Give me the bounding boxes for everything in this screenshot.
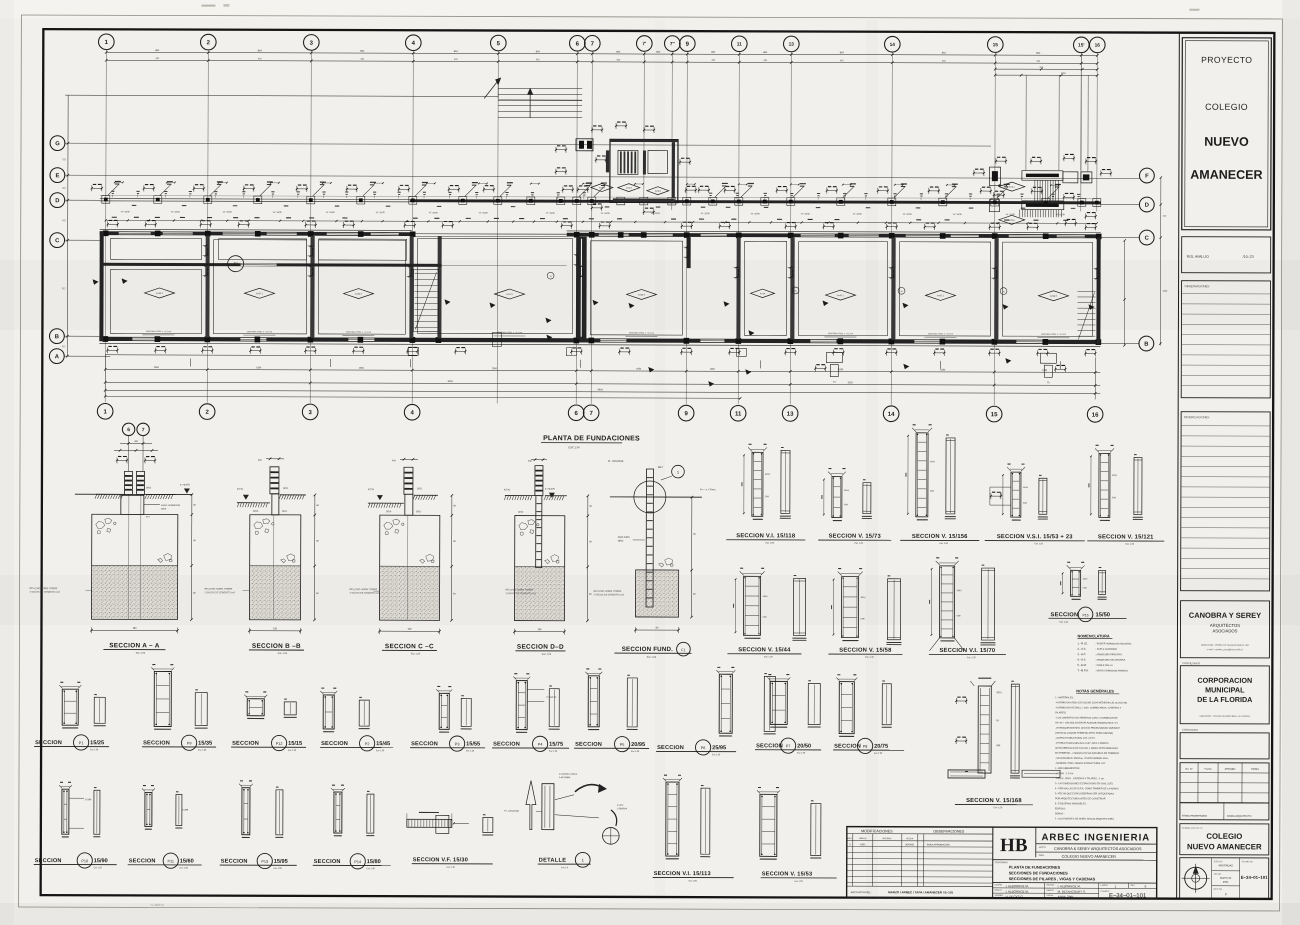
svg-text:15/35: 15/35: [198, 741, 212, 747]
svg-text:Esc 1:20: Esc 1:20: [94, 867, 103, 869]
svg-text:15: 15: [900, 291, 902, 293]
wall stub below axis C near grid 9: [687, 237, 691, 268]
svg-text:SECCION: SECCION: [411, 741, 438, 747]
svg-text:SECCION A – A: SECCION A – A: [109, 642, 160, 649]
svg-text:P15: P15: [1082, 613, 1088, 617]
right panel divider: [1177, 33, 1180, 899]
svg-text:D: D: [1145, 203, 1149, 209]
svg-text:SECCIONES DE PILARES , VIGAS Y: SECCIONES DE PILARES , VIGAS Y CADENAS: [1009, 876, 1096, 881]
svg-text:A=57.1: A=57.1: [837, 294, 845, 297]
panel box proyecto: [1182, 38, 1272, 230]
svg-text:VF. 15/30: VF. 15/30: [651, 213, 661, 215]
svg-text:SECCION V. 15/121: SECCION V. 15/121: [1098, 534, 1154, 540]
column box on axis F at grid 15: [989, 167, 1000, 186]
seccion P6 25/95: [719, 674, 732, 733]
svg-text:SECCION V. 15/58: SECCION V. 15/58: [839, 648, 892, 654]
building outer walls : top wall axis C: [100, 228, 412, 231]
svg-text:I. ALBORNOZ M.: I. ALBORNOZ M.: [1006, 884, 1029, 888]
svg-text:7': 7': [642, 41, 646, 47]
bottom dimension chains of plan: [105, 369, 1100, 372]
seccion P3 15/55: [439, 693, 449, 729]
seccion V.I. 15/118: [752, 452, 763, 516]
svg-text:Esc 1:20: Esc 1:20: [376, 750, 385, 752]
svg-text:DIBUJO: DIBUJO: [995, 890, 1002, 892]
svg-text:30/04/01: 30/04/01: [905, 843, 915, 846]
svg-text:FECHA: FECHA: [1047, 894, 1054, 897]
thick double wall at axis 6: [576, 237, 587, 339]
svg-text:COLEGIO: COLEGIO: [1205, 102, 1248, 112]
svg-text:NUEVO AMANECER: NUEVO AMANECER: [1187, 842, 1262, 851]
svg-text:DET: DET: [658, 465, 664, 469]
svg-text:15/15: 15/15: [288, 741, 302, 747]
svg-text:VF. 15/30: VF. 15/30: [479, 212, 489, 214]
hatched stair square in wing: [618, 150, 638, 174]
svg-text:Esc 1:20: Esc 1:20: [765, 542, 774, 544]
svg-text:1054: 1054: [710, 369, 716, 371]
svg-text:VF. 15/30: VF. 15/30: [121, 211, 131, 213]
svg-text:3262: 3262: [848, 381, 854, 384]
svg-text:A=127: A=127: [506, 293, 513, 296]
svg-text:15/80: 15/80: [367, 859, 381, 865]
svg-text:: DOBLE MALLA: : DOBLE MALLA: [1095, 664, 1113, 667]
svg-text:2Ø12: 2Ø12: [416, 511, 422, 513]
svg-text:SECCION: SECCION: [493, 742, 520, 748]
svg-text:2Ø16: 2Ø16: [996, 692, 1002, 694]
svg-text:864: 864: [155, 49, 160, 52]
svg-text:PROPIETARIO: PROPIETARIO: [1182, 661, 1200, 665]
svg-text:COLEGIO NUEVO AMANECER: COLEGIO NUEVO AMANECER: [1062, 855, 1116, 859]
svg-text:15/75: 15/75: [549, 742, 563, 748]
row letter bubbles left: [50, 136, 65, 151]
svg-text:MODIFICACIONES: MODIFICACIONES: [1184, 415, 1209, 419]
panel box rol avaluo: [1182, 237, 1271, 273]
svg-text:Esc 1:20: Esc 1:20: [874, 753, 883, 755]
svg-text:7'': 7'': [670, 41, 675, 47]
svg-text:15: 15: [991, 412, 998, 418]
svg-text:H. BECKS G.: H. BECKS G.: [1006, 895, 1024, 899]
svg-text:RELLENO HORM. POBRE: RELLENO HORM. POBRE: [350, 589, 378, 591]
svg-text:A=9.3: A=9.3: [599, 187, 606, 190]
svg-text:P. ACERO e=8mm: P. ACERO e=8mm: [559, 773, 577, 776]
sub-room partition wall in rooms 1-2: [102, 263, 442, 267]
svg-text:FECHA: FECHA: [906, 837, 913, 840]
svg-text:FECHA: FECHA: [1214, 873, 1222, 876]
svg-text:P10: P10: [81, 859, 88, 863]
svg-text:DADO HORMIGON: DADO HORMIGON: [161, 504, 181, 507]
north compass symbol: [1185, 867, 1207, 889]
svg-text:FIRMA: FIRMA: [1251, 768, 1259, 771]
svg-text:VF. 15/30: VF. 15/30: [903, 214, 913, 216]
svg-text:20/95: 20/95: [631, 742, 645, 748]
seccion P12 15/15: [247, 699, 264, 716]
svg-text:AMANECER: AMANECER: [1190, 168, 1262, 182]
svg-text:2 SACOS DE CEMENTO /m3: 2 SACOS DE CEMENTO /m3: [506, 592, 537, 595]
svg-text:VENTANA VSNL v + 15 cm: VENTANA VSNL v + 15 cm: [346, 331, 371, 334]
svg-text:N.T.N.: N.T.N.: [504, 490, 511, 492]
svg-text:Esc 1:20: Esc 1:20: [689, 881, 698, 883]
svg-text:Esc 1:20: Esc 1:20: [549, 751, 558, 753]
svg-text:VF. 15/30: VF. 15/30: [953, 214, 963, 216]
svg-text:–VIGAS , RISO , CADENAS Y PILA: –VIGAS , RISO , CADENAS Y PILARES : 2 cm…: [1055, 777, 1105, 780]
DET 1 marker: [672, 465, 685, 478]
svg-text:RELLENO HORM. POBRE: RELLENO HORM. POBRE: [205, 589, 233, 591]
detalle 1: [542, 784, 554, 830]
vertical grid lines: [105, 50, 106, 402]
svg-text:2+2Ø8: 2+2Ø8: [85, 799, 92, 801]
svg-text:M. BETANCOURT S.: M. BETANCOURT S.: [1058, 890, 1086, 894]
seccion V.I. 15/70: [939, 566, 954, 638]
svg-text:Esc 1:25: Esc 1:25: [411, 652, 421, 655]
svg-text:P12: P12: [276, 742, 283, 746]
columns on axis C: [103, 230, 109, 236]
svg-text:2Ø12: 2Ø12: [282, 511, 288, 513]
courtyard boundary lines between grids 4 and 6: [412, 233, 567, 235]
svg-text:2Ø16: 2Ø16: [253, 511, 259, 513]
svg-text:P. ACT.: P. ACT.: [617, 804, 624, 807]
svg-text:NOMBRE PROYECTO: NOMBRE PROYECTO: [1182, 828, 1203, 830]
small marks on dim rows: [189, 359, 191, 367]
svg-text:INTERNO: INTERNO: [882, 838, 891, 840]
svg-text:A 45°/SIMIL: A 45°/SIMIL: [559, 776, 571, 779]
seccion P8 20/75: [839, 682, 854, 734]
svg-text:13: 13: [789, 42, 795, 48]
svg-text:15: 15: [550, 276, 552, 278]
svg-text:Esc 1:20: Esc 1:20: [854, 543, 863, 545]
right wing lower beam: [1022, 201, 1064, 210]
svg-text:P13: P13: [261, 860, 268, 864]
svg-text:SECCIONES DE FUNDACIONES: SECCIONES DE FUNDACIONES: [1009, 870, 1068, 875]
svg-text:14: 14: [890, 42, 896, 48]
svg-text:Esc 1:20: Esc 1:20: [939, 543, 948, 545]
room area diamonds: [145, 288, 175, 298]
svg-text:A=60.7: A=60.7: [355, 293, 363, 296]
svg-text:864: 864: [536, 50, 541, 53]
column grid bubbles top row: [98, 34, 114, 50]
svg-text:A=9.1: A=9.1: [1009, 186, 1016, 189]
svg-text:6.–ESQUEMAS ADMISIBLES:: 6.–ESQUEMAS ADMISIBLES:: [1055, 802, 1087, 805]
right wing near grids 15-16 : upper beam: [1022, 171, 1063, 181]
svg-text:Esc 1:10: Esc 1:10: [447, 867, 456, 869]
svg-text:APROBO: APROBO: [1225, 768, 1236, 771]
svg-text:: ARMADURA SECUNDARIA: : ARMADURA SECUNDARIA: [1095, 659, 1125, 662]
svg-text:Esc 1:20: Esc 1:20: [274, 868, 283, 870]
top right extra dims near grid 15-16: [995, 68, 1097, 70]
svg-text:UBICACION : VICUNA CALVARIO 8: UBICACION : VICUNA CALVARIO 8651, LA FLO…: [1200, 715, 1251, 718]
svg-text:PARA APROBACION: PARA APROBACION: [927, 843, 950, 846]
svg-text:N.T.N.: N.T.N.: [237, 489, 244, 491]
svg-text:: MURO HORMIGON ARMADO: : MURO HORMIGON ARMADO: [1095, 669, 1128, 672]
svg-text:VENTANA VSNL v + 15 cm: VENTANA VSNL v + 15 cm: [928, 332, 953, 335]
seccion V. 15/168 L-shape: [978, 686, 991, 773]
svg-text:HA–90 + 20% BOLON DESPLAZADOR: HA–90 + 20% BOLON DESPLAZADOR (TAMANO MA…: [1055, 721, 1118, 724]
svg-text:15: 15: [993, 42, 999, 48]
svg-text:16: 16: [1092, 413, 1099, 419]
svg-text:A=57.1: A=57.1: [256, 292, 264, 295]
svg-text:P14: P14: [354, 860, 361, 864]
svg-text:A=9.3: A=9.3: [626, 187, 633, 190]
svg-text:SECCION: SECCION: [1051, 612, 1079, 618]
svg-text:SECCION: SECCION: [129, 858, 156, 864]
room inner outlines main row: [110, 269, 201, 333]
svg-text:: SUPLE SUPERIOR: : SUPLE SUPERIOR: [1095, 649, 1117, 651]
svg-text:N–38/070: N–38/070: [151, 903, 164, 907]
svg-text:3262: 3262: [448, 380, 454, 383]
svg-text:160: 160: [407, 628, 412, 631]
svg-text:4.–A.S.: 4.–A.S.: [1077, 658, 1086, 662]
svg-text:CORPORACION: CORPORACION: [1197, 676, 1252, 685]
svg-text:1054: 1054: [492, 368, 498, 370]
svg-text:NUEVO: NUEVO: [1204, 135, 1249, 149]
seccion V. 15/121: [1099, 453, 1110, 517]
axis D beam lines left thin part: [100, 198, 410, 201]
svg-text:1054: 1054: [1042, 370, 1048, 372]
panel approvals table: [1180, 763, 1269, 803]
svg-text:5.–FECHA QUE ESTAS DEBERAN SER: 5.–FECHA QUE ESTAS DEBERAN SER CHEQUEADA…: [1055, 792, 1115, 795]
svg-text:N.T.N.: N.T.N.: [368, 489, 375, 491]
svg-text:SECCION V.I. 15/70: SECCION V.I. 15/70: [939, 648, 995, 654]
svg-text:9904: 9904: [598, 388, 604, 391]
svg-text:OBSERVACIONES: OBSERVACIONES: [933, 829, 964, 833]
wing column block at grid 6-7: [576, 139, 593, 151]
seccion A-A foundation: [122, 423, 134, 435]
svg-text:CANOBRA & SEREY ARQUITECTOS AS: CANOBRA & SEREY ARQUITECTOS ASOCIADOS: [1054, 847, 1142, 851]
svg-text:15/25: 15/25: [90, 740, 104, 746]
axis D annotation clusters: [92, 187, 102, 189]
svg-text:SECCION V. 15/44: SECCION V. 15/44: [738, 647, 791, 653]
small room in wing: [648, 150, 668, 173]
svg-text:SECCION V.S.I. 15/53 + 23: SECCION V.S.I. 15/53 + 23: [997, 534, 1073, 540]
wing diamonds: [591, 184, 613, 192]
svg-text:APROBO: APROBO: [995, 894, 1004, 897]
seccion V. 15/53 (bottom): [760, 794, 777, 856]
svg-text:CANOBRA Y SEREY: CANOBRA Y SEREY: [1189, 611, 1261, 620]
svg-text:DE LA FLORIDA: DE LA FLORIDA: [1197, 695, 1252, 704]
svg-text:15': 15': [1078, 43, 1085, 49]
svg-text:SECCION FUND.: SECCION FUND.: [622, 646, 674, 653]
svg-text:SECCION: SECCION: [35, 858, 62, 864]
svg-text:P4: P4: [538, 743, 543, 747]
svg-text:P7: P7: [786, 744, 791, 748]
T stub details below wall B: [826, 353, 842, 363]
svg-text:2001: 2001: [1223, 880, 1229, 884]
svg-text:15: 15: [794, 291, 796, 293]
svg-text:ESCALA: ESCALA: [1214, 860, 1223, 863]
svg-text:REVISO: REVISO: [1047, 885, 1055, 887]
svg-text:5.–E.M.: 5.–E.M.: [1077, 663, 1087, 667]
seccion P14 15/80: [334, 792, 342, 833]
svg-text:Esc 1:20: Esc 1:20: [466, 750, 475, 752]
svg-text:6: 6: [127, 427, 130, 433]
svg-text:MAYO 10: MAYO 10: [1220, 876, 1232, 880]
svg-text:15/90: 15/90: [94, 858, 108, 864]
svg-text:F: F: [1145, 174, 1149, 180]
svg-text:SECCION: SECCION: [657, 745, 684, 751]
svg-text:Esc 1:20: Esc 1:20: [631, 751, 640, 753]
grid bubbles bottom row: [97, 403, 113, 419]
svg-text:SECCION: SECCION: [314, 859, 341, 865]
seccion P2 15/45: [323, 695, 334, 729]
svg-text:2Ø12: 2Ø12: [146, 487, 152, 489]
svg-text:1054: 1054: [1061, 73, 1067, 75]
svg-text:Esc 1:5: Esc 1:5: [561, 867, 569, 869]
svg-text:EN TERRENO , 2 MANOS EN SOLDAD: EN TERRENO , 2 MANOS EN SOLDADURAS EN TE…: [1055, 752, 1119, 755]
svg-text:A=60.7: A=60.7: [638, 293, 646, 296]
seccion P4 15/75: [516, 681, 527, 730]
svg-text:Esc 1:20: Esc 1:20: [198, 750, 207, 752]
seccion P13 15/95: [242, 788, 250, 835]
svg-text:ESC 1:50: ESC 1:50: [568, 445, 580, 449]
svg-text:I. ALBORNOZ M.: I. ALBORNOZ M.: [1058, 884, 1081, 888]
svg-text:180: 180: [132, 627, 137, 630]
seccion P9 15/35: [154, 671, 171, 726]
columns on axis B: [103, 336, 109, 342]
svg-text:864: 864: [616, 50, 621, 53]
svg-text:864: 864: [711, 51, 716, 54]
svg-text:11: 11: [735, 411, 742, 417]
svg-text:ARCHIVO ACAD :: ARCHIVO ACAD :: [851, 890, 872, 894]
panel box observaciones: [1181, 281, 1270, 398]
svg-text:ARBEC INGENIERIA: ARBEC INGENIERIA: [1041, 832, 1150, 843]
svg-text:11: 11: [737, 41, 742, 47]
svg-text:A=9.3: A=9.3: [655, 190, 662, 193]
detail circle at ground interface: [634, 481, 666, 513]
svg-text:COLEGIO: COLEGIO: [1206, 832, 1242, 841]
svg-text:2Ø12: 2Ø12: [618, 540, 624, 542]
svg-text:REV. No.: REV. No.: [1214, 889, 1223, 891]
svg-text:VF. 15/30: VF. 15/30: [701, 213, 711, 215]
svg-text:Esc 1:20: Esc 1:20: [994, 807, 1003, 809]
svg-text:SECCION V. 15/156: SECCION V. 15/156: [912, 534, 968, 540]
svg-text:Esc 1:25: Esc 1:25: [278, 652, 288, 655]
seccion V. 15/156: [916, 433, 928, 517]
stair right end: [1078, 290, 1096, 292]
svg-text:I. ALBORNOZ M.: I. ALBORNOZ M.: [1006, 890, 1029, 894]
svg-text:1054: 1054: [359, 368, 365, 370]
svg-text:NOTAS GENERALES: NOTAS GENERALES: [1076, 689, 1114, 693]
svg-text:VF. 15/30: VF. 15/30: [751, 213, 761, 215]
svg-text:e-mail : canobra_serey@terra.c: e-mail : canobra_serey@terra.chile.cl: [1207, 648, 1244, 651]
svg-text:P8: P8: [863, 745, 868, 749]
seccion V. 15/58: [841, 577, 858, 638]
seccion P1 15/25: [62, 689, 78, 725]
svg-text:864: 864: [258, 49, 263, 52]
svg-text:VENTANA VSNL v + 15 cm: VENTANA VSNL v + 15 cm: [247, 330, 272, 333]
svg-text:P3: P3: [455, 742, 460, 746]
courtyard room outline: [417, 238, 572, 333]
column at grid 15 on axis D: [989, 200, 999, 212]
svg-text:1.–MATERIALES:: 1.–MATERIALES:: [1055, 696, 1074, 699]
stair block near grid 4: [413, 269, 438, 331]
svg-text:–MADERA: PINO, GRADO EST: –MADERA: PINO, GRADO ESTRUCTURAL G/2: [1055, 762, 1106, 765]
svg-text:20/75: 20/75: [874, 744, 888, 750]
svg-text:VF. 15/30: VF. 15/30: [601, 213, 611, 215]
svg-text:P11: P11: [167, 859, 173, 863]
svg-text:150: 150: [537, 628, 542, 631]
svg-text:1054: 1054: [838, 369, 844, 371]
svg-text:: RADIER HORMIGON ADICIONAL: : RADIER HORMIGON ADICIONAL: [1095, 642, 1132, 645]
svg-text:Esc 1:20: Esc 1:20: [180, 868, 189, 870]
svg-text:13: 13: [787, 412, 794, 418]
svg-text:PL. 220x220x8: PL. 220x220x8: [608, 461, 624, 463]
svg-text:SECCION V. 15/53: SECCION V. 15/53: [762, 871, 813, 877]
svg-text:ANCLAJES: ANCLAJES: [618, 536, 630, 539]
svg-text:864: 864: [454, 50, 459, 53]
svg-text:15/95: 15/95: [274, 859, 288, 865]
svg-text:N = – a 1.70mts: N = – a 1.70mts: [700, 488, 716, 491]
svg-text:Esc 1:20: Esc 1:20: [712, 754, 721, 756]
svg-text:Esc 1:25: Esc 1:25: [136, 652, 146, 655]
svg-text:A=9.6: A=9.6: [1009, 219, 1016, 222]
title block frame: [847, 827, 1157, 899]
svg-text:SECCION D–D: SECCION D–D: [517, 644, 564, 651]
svg-text:VENTANA VSNL v + 15 cm: VENTANA VSNL v + 15 cm: [146, 330, 171, 333]
svg-text:VF. 15/30: VF. 15/30: [273, 212, 283, 214]
svg-text:Esc 1:20: Esc 1:20: [795, 881, 804, 883]
extra micro dim ticks above axis D: [115, 181, 123, 183]
panel firmas box: [1180, 803, 1269, 820]
svg-text:MODIFICACIONES: MODIFICACIONES: [861, 829, 893, 833]
panel bottom block with north symbol: [1180, 858, 1269, 899]
svg-text:DETALLE: DETALLE: [539, 858, 567, 864]
svg-text:VF. 15/30: VF. 15/30: [1056, 214, 1066, 216]
svg-text:VF. 15/30: VF. 15/30: [853, 214, 863, 216]
svg-text:VF. 15/30: VF. 15/30: [326, 212, 336, 214]
svg-text:P6: P6: [701, 746, 706, 750]
svg-text:Esc 1:20: Esc 1:20: [865, 657, 874, 659]
svg-text:VF. 15/30: VF. 15/30: [801, 213, 811, 215]
internal partition walls: [205, 236, 209, 338]
svg-text:A301: A301: [860, 843, 866, 846]
svg-text:–LOS CIMIENTOS NO ARMADOS CON: –LOS CIMIENTOS NO ARMADOS CON H. HORMIGO…: [1055, 716, 1118, 719]
svg-text:P9: P9: [187, 742, 192, 746]
svg-text:Esc 1:20: Esc 1:20: [1034, 543, 1043, 545]
svg-text:Esc 1:20: Esc 1:20: [764, 656, 773, 658]
svg-text:VENTANA VSNL v + 15 cm: VENTANA VSNL v + 15 cm: [629, 332, 654, 335]
svg-text:Esc 1:20: Esc 1:20: [1059, 622, 1068, 624]
svg-text:ANTICORROSIVO DE TALLER, 1 MAN: ANTICORROSIVO DE TALLER, 1 MANO ANTICORR…: [1055, 747, 1118, 750]
annotation clusters along axis C above wall: [108, 223, 118, 225]
svg-text:DIBUJO: DIBUJO: [1047, 890, 1054, 892]
svg-text:: ARMADURA PRINCIPAL: : ARMADURA PRINCIPAL: [1095, 653, 1122, 656]
svg-text:–SOLDADURAS: E6011ax , PUNTO: –SOLDADURAS: E6011ax , PUNTO MINIMO 3mm.: [1055, 757, 1109, 760]
panel box modificaciones: [1181, 412, 1271, 591]
svg-text:F1: F1: [681, 648, 685, 652]
svg-text:Esc 1:20: Esc 1:20: [367, 868, 376, 870]
svg-text:VENTANA VSNL v + 15 cm: VENTANA VSNL v + 15 cm: [828, 332, 853, 335]
svg-text:1054: 1054: [154, 367, 160, 369]
svg-text:SECCION V.I. 15/113: SECCION V.I. 15/113: [654, 871, 711, 877]
svg-text:P5: P5: [620, 743, 625, 747]
svg-text:VF. 15/30: VF. 15/30: [171, 211, 181, 213]
svg-text:CONTENIDO: CONTENIDO: [995, 862, 1008, 864]
pilaster labels under axis D: [132, 205, 137, 206]
svg-text:RELLENO HORM. POBRE: RELLENO HORM. POBRE: [506, 590, 534, 592]
svg-text:POR ARQUITECTURA ANTES DE CONS: POR ARQUITECTURA ANTES DE CONSTRUIR: [1055, 797, 1106, 800]
svg-text:14: 14: [888, 412, 895, 418]
B-prime bubble: [228, 256, 244, 272]
svg-text:Esc 1:25: Esc 1:25: [542, 653, 552, 656]
svg-text:PLANTA DE FUNDACIONES: PLANTA DE FUNDACIONES: [543, 435, 640, 442]
svg-text:VF. 15/30: VF. 15/30: [429, 212, 439, 214]
svg-text:ROL AVALUO: ROL AVALUO: [1187, 255, 1209, 259]
top margin marks: [201, 5, 215, 7]
svg-text:h=+0.075: h=+0.075: [180, 485, 190, 487]
svg-text:864: 864: [1036, 52, 1041, 55]
svg-text:PLANTA DE FUNDACIONES: PLANTA DE FUNDACIONES: [1009, 865, 1061, 870]
svg-text:2Ø12: 2Ø12: [417, 488, 423, 490]
wing internal dark wall segment: [606, 150, 609, 172]
svg-text:L 50x50x4: L 50x50x4: [617, 808, 628, 810]
